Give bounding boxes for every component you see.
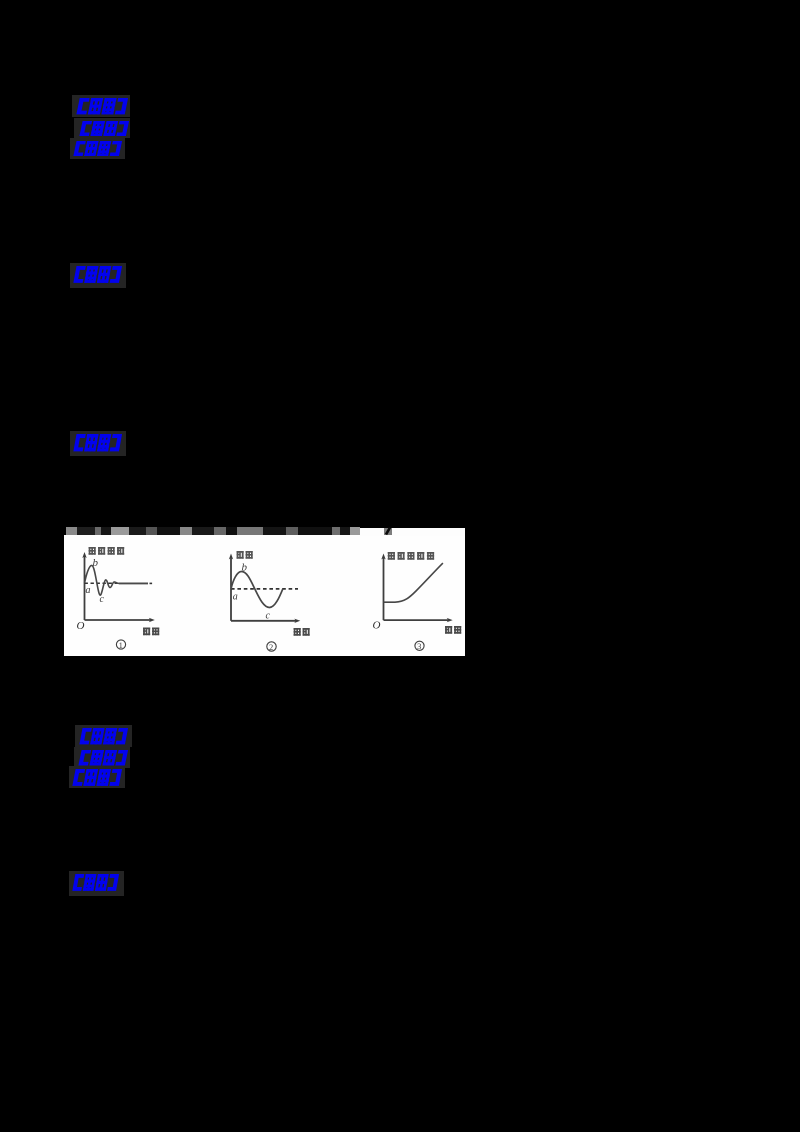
svg-text:c: c <box>265 610 270 621</box>
svg-text:2: 2 <box>269 641 273 651</box>
blue marker 4 <box>73 266 122 284</box>
svg-text:a: a <box>232 591 237 602</box>
svg-text:a: a <box>85 584 90 595</box>
faint gray boxes behind blue markers <box>72 95 130 117</box>
question title stripe (clipped dark text row) <box>66 527 360 535</box>
blue marker 8 <box>72 769 122 787</box>
blue marker 2 <box>79 121 129 137</box>
svg-text:b: b <box>241 561 247 573</box>
blue marker 9 <box>72 874 119 892</box>
svg-text:O: O <box>372 619 380 631</box>
svg-text:b: b <box>92 557 98 569</box>
svg-text:1: 1 <box>118 639 122 649</box>
blue marker 6 <box>79 728 128 745</box>
svg-text:c: c <box>99 593 104 604</box>
blue marker 5 <box>73 434 122 452</box>
svg-text:3: 3 <box>417 641 421 651</box>
graphs svg over white box <box>64 528 465 657</box>
svg-text:O: O <box>76 620 84 632</box>
white image box <box>64 535 465 657</box>
bracket mark on title <box>384 528 392 536</box>
hidden defs for glyph symbols <box>0 0 1 1</box>
blue marker 1 <box>76 98 128 115</box>
labels graph 1 <box>88 547 124 555</box>
blue marker 3 <box>73 141 122 157</box>
blue marker 7 <box>78 750 128 766</box>
